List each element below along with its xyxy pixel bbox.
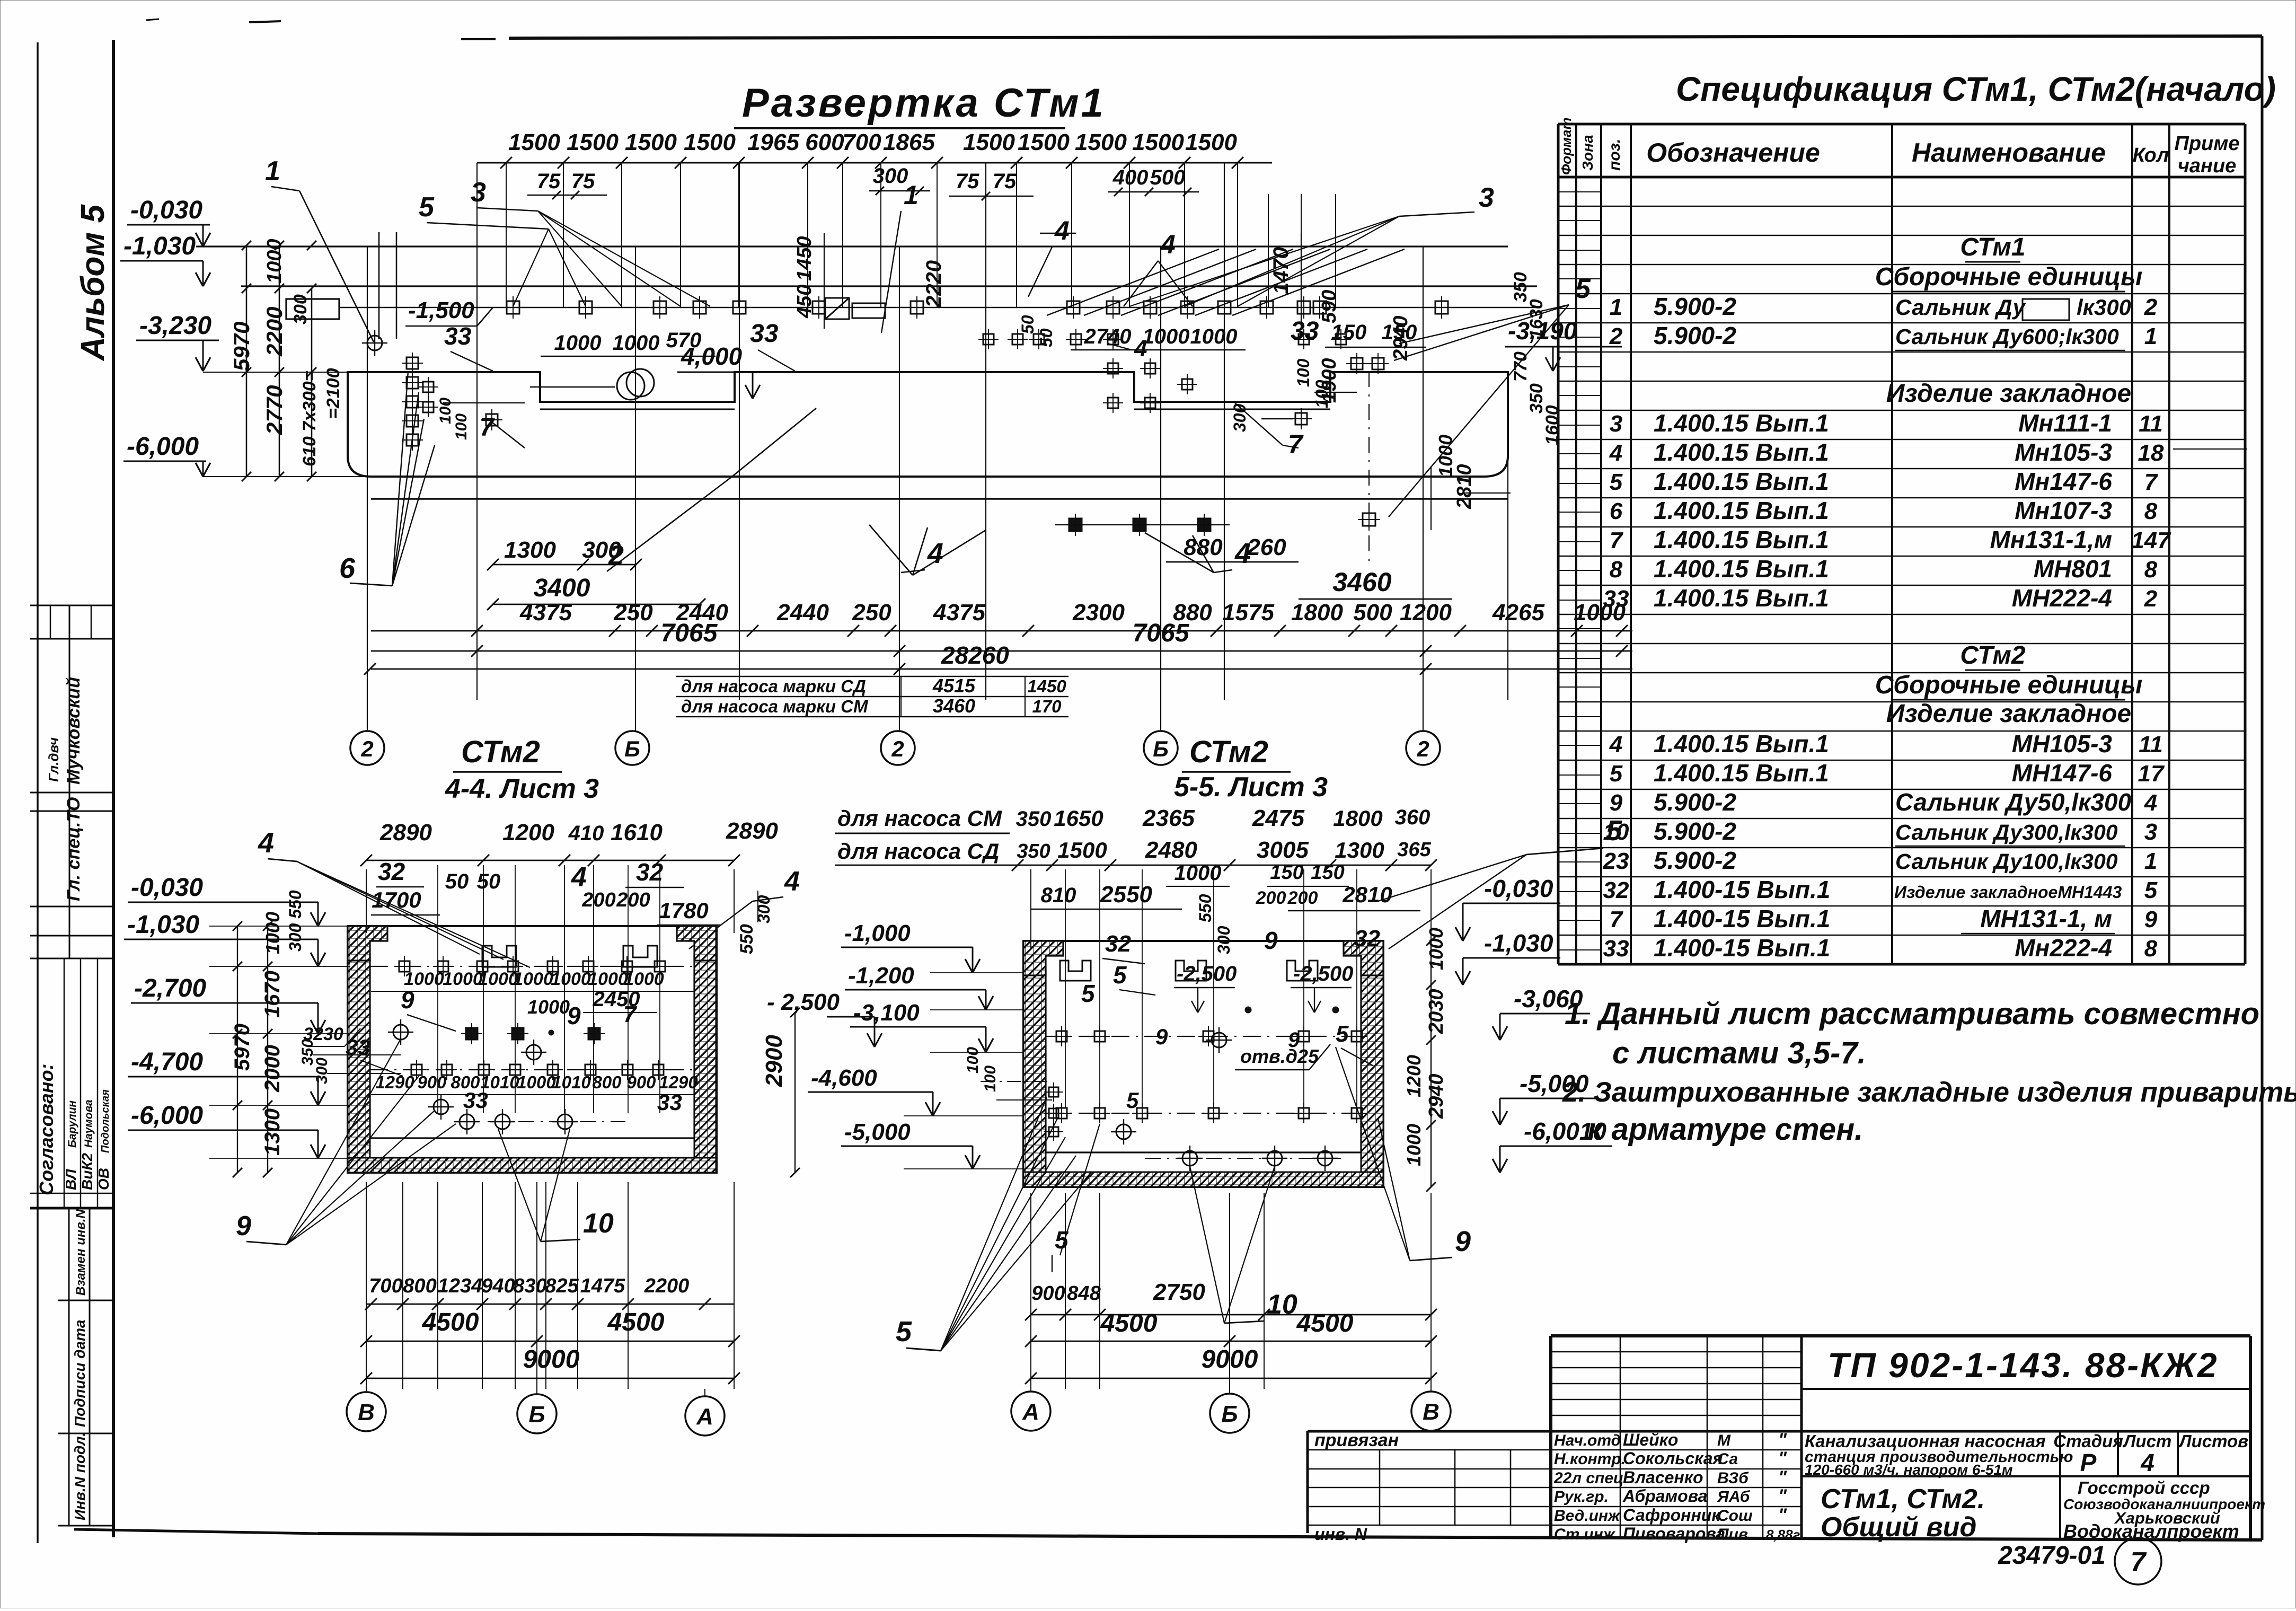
svg-text:5.900-2: 5.900-2 [1654,847,1736,874]
svg-text:Зона: Зона [1579,135,1596,171]
svg-text:400: 400 [1112,166,1149,189]
svg-text:-4,600: -4,600 [811,1065,877,1091]
svg-text:8: 8 [2144,498,2158,524]
svg-text:4: 4 [571,862,587,893]
svg-text:А: А [696,1404,713,1430]
svg-text:4: 4 [1160,230,1176,259]
svg-text:32: 32 [1354,926,1380,952]
svg-text:2750: 2750 [1153,1279,1205,1305]
svg-text:для насоса марки СД: для насоса марки СД [681,676,866,696]
svg-text:1000: 1000 [478,969,518,989]
svg-text:1650: 1650 [1054,806,1103,831]
svg-text:7: 7 [2144,469,2159,495]
svg-text:Согласовано:: Согласовано: [36,1063,57,1195]
svg-text:Б: Б [528,1402,545,1428]
svg-text:поз.: поз. [1606,139,1623,171]
svg-text:150: 150 [1270,861,1303,884]
svg-text:-5,000: -5,000 [1520,1070,1589,1097]
svg-text:9: 9 [1155,1024,1168,1049]
svg-text:СТм2: СТм2 [461,735,540,769]
svg-text:1.400.15 Вып.1: 1.400.15 Вып.1 [1654,730,1829,758]
svg-text:32: 32 [378,858,405,885]
svg-text:1.400.15 Вып.1: 1.400.15 Вып.1 [1654,759,1829,787]
svg-text:": " [1778,1505,1787,1525]
svg-text:550: 550 [737,924,757,954]
svg-text:50: 50 [1018,315,1037,334]
svg-text:1300: 1300 [504,537,556,563]
svg-text:lк300: lк300 [2077,295,2131,320]
svg-text:Обозначение: Обозначение [1646,138,1820,168]
svg-text:5.900-2: 5.900-2 [1654,293,1736,320]
svg-text:10: 10 [583,1208,614,1239]
svg-text:-1,030: -1,030 [123,232,196,260]
svg-text:1.400-15 Вып.1: 1.400-15 Вып.1 [1654,876,1830,903]
svg-text:4,000: 4,000 [681,342,743,370]
svg-text:2480: 2480 [1145,837,1197,863]
svg-text:1450: 1450 [1027,676,1066,696]
svg-text:инв. N: инв. N [1314,1525,1367,1544]
svg-text:4500: 4500 [1100,1309,1158,1337]
svg-text:1.400.15 Вып.1: 1.400.15 Вып.1 [1654,468,1829,495]
svg-text:4: 4 [1609,440,1622,466]
svg-text:350: 350 [1511,272,1531,302]
svg-text:2200: 2200 [644,1275,690,1297]
svg-text:1475: 1475 [580,1275,625,1297]
svg-text:1450: 1450 [793,236,816,281]
svg-text:для насоса СД: для насоса СД [837,839,999,864]
svg-text:4: 4 [784,866,800,897]
svg-text:825: 825 [545,1275,579,1297]
svg-text:Власенко: Власенко [1623,1468,1703,1487]
svg-text:ВЛ: ВЛ [63,1169,79,1190]
svg-text:100: 100 [964,1047,982,1073]
svg-text:-0,030: -0,030 [131,874,203,902]
svg-text:1610: 1610 [611,820,663,846]
svg-text:Подписи дата: Подписи дата [72,1319,88,1427]
svg-text:2475: 2475 [1252,805,1304,831]
svg-text:150: 150 [1331,321,1367,344]
svg-text:700: 700 [369,1275,402,1297]
svg-text:1. Данный лист рассматривать с: 1. Данный лист рассматривать совместно [1565,997,2259,1031]
svg-text:830: 830 [513,1275,546,1297]
svg-text:Инв.N подл.: Инв.N подл. [72,1432,88,1520]
svg-text:1000: 1000 [443,969,483,989]
svg-text:2200: 2200 [262,307,287,357]
svg-text:2890: 2890 [379,820,432,846]
svg-text:1000: 1000 [551,969,591,989]
svg-text:4: 4 [1054,216,1070,245]
svg-text:4375: 4375 [519,600,572,626]
svg-text:3: 3 [471,177,486,208]
svg-text:-2,700: -2,700 [134,974,206,1002]
svg-text:1.400.15 Вып.1: 1.400.15 Вып.1 [1654,555,1829,583]
svg-text:800: 800 [592,1072,622,1092]
svg-text:МН222-4: МН222-4 [2012,584,2112,612]
svg-text:33: 33 [463,1088,488,1113]
svg-text:Сокольская: Сокольская [1623,1449,1723,1468]
svg-text:4375: 4375 [933,600,985,626]
svg-text:33: 33 [1291,317,1319,345]
svg-text:1.400.15 Вып.1: 1.400.15 Вып.1 [1654,409,1829,437]
svg-text:4515: 4515 [932,675,976,697]
svg-text:-1,200: -1,200 [848,963,914,989]
svg-text:1: 1 [1610,294,1622,320]
svg-text:8: 8 [2144,557,2158,583]
svg-text:900: 900 [626,1072,656,1092]
svg-text:Мн105-3: Мн105-3 [2015,438,2112,466]
svg-text:2: 2 [2144,294,2158,320]
svg-text:32: 32 [1603,877,1629,903]
svg-text:1: 1 [265,156,280,187]
svg-text:-0,030: -0,030 [130,196,202,224]
svg-text:365: 365 [1397,839,1431,861]
svg-text:7: 7 [2131,1547,2147,1578]
svg-text:Наименование: Наименование [1912,138,2106,168]
svg-text:300: 300 [313,1058,331,1084]
svg-text:4500: 4500 [1296,1309,1354,1337]
svg-text:17: 17 [2138,761,2165,787]
svg-text:1.400-15 Вып.1: 1.400-15 Вып.1 [1654,934,1830,962]
svg-text:7: 7 [623,1001,638,1027]
svg-text:770: 770 [1511,351,1531,382]
svg-text:22л спец: 22л спец [1553,1469,1623,1487]
svg-text:": " [1778,1467,1787,1487]
svg-text:7: 7 [1610,906,1624,932]
svg-text:-5,000: -5,000 [844,1119,911,1145]
svg-text:1200: 1200 [1400,600,1452,626]
svg-text:800: 800 [403,1275,436,1297]
svg-text:Сафронник: Сафронник [1623,1506,1721,1525]
svg-text:Общий вид: Общий вид [1821,1512,1977,1543]
svg-text:5.900-2: 5.900-2 [1654,817,1736,845]
svg-text:5.900-2: 5.900-2 [1654,788,1736,816]
svg-text:1234: 1234 [438,1275,483,1297]
svg-text:1: 1 [904,180,919,210]
svg-text:-2,500: -2,500 [1177,962,1237,985]
svg-text:1000: 1000 [527,996,570,1018]
svg-text:5: 5 [1113,961,1127,989]
svg-text:Приме: Приме [2175,133,2240,155]
svg-text:2810: 2810 [1453,464,1476,509]
svg-text:450: 450 [793,285,816,319]
svg-text:Изделие закладноеМН1443: Изделие закладноеМН1443 [1894,883,2122,902]
svg-text:Барулин: Барулин [66,1101,78,1148]
svg-text:5: 5 [1081,980,1096,1007]
svg-text:Мн111-1: Мн111-1 [2018,409,2112,437]
svg-text:170: 170 [1032,697,1062,716]
svg-text:МН801: МН801 [2034,555,2112,583]
svg-text:5970: 5970 [231,1024,254,1071]
svg-text:940: 940 [481,1275,515,1297]
svg-text:ЯАб: ЯАб [1717,1488,1751,1506]
svg-text:1500: 1500 [1018,129,1070,155]
svg-text:1800: 1800 [1291,600,1343,626]
svg-text:500: 500 [1150,166,1186,189]
svg-text:9: 9 [1455,1226,1471,1257]
svg-text:880: 880 [1184,534,1223,560]
svg-text:МН105-3: МН105-3 [2012,730,2113,758]
svg-text:2: 2 [891,736,904,761]
svg-text:2: 2 [1609,323,1623,349]
svg-text:33: 33 [444,322,472,350]
svg-text:привязан: привязан [1314,1430,1399,1450]
svg-text:1500: 1500 [1132,129,1184,155]
svg-text:ТП 902-1-143. 88-КЖ2: ТП 902-1-143. 88-КЖ2 [1827,1345,2219,1385]
svg-text:4: 4 [1609,732,1622,758]
svg-text:Госстрой ссср: Госстрой ссср [2078,1478,2210,1498]
svg-text:Подольская: Подольская [100,1089,111,1153]
svg-text:9: 9 [2144,906,2158,932]
svg-text:32: 32 [1105,931,1131,957]
svg-text:Рук.гр.: Рук.гр. [1554,1488,1609,1506]
svg-text:1965: 1965 [747,129,799,155]
svg-text:-1,030: -1,030 [1484,929,1553,957]
svg-text:2940: 2940 [1425,1073,1447,1119]
svg-text:СТм2: СТм2 [1960,641,2025,670]
svg-text:СТм1, СТм2.: СТм1, СТм2. [1821,1484,1985,1515]
svg-text:1.400.15 Вып.1: 1.400.15 Вып.1 [1654,584,1829,612]
svg-text:75: 75 [956,170,979,193]
svg-text:1200: 1200 [502,820,554,846]
svg-text:МН131-1, м: МН131-1, м [1980,905,2112,932]
svg-text:1600: 1600 [1542,405,1562,445]
svg-text:3400: 3400 [534,574,590,602]
svg-text:75: 75 [537,170,561,193]
svg-text:5-5. Лист 3: 5-5. Лист 3 [1174,772,1328,803]
svg-text:2365: 2365 [1142,805,1195,831]
svg-text:4500: 4500 [607,1308,665,1336]
svg-text:200: 200 [581,889,615,911]
svg-text:А: А [1022,1399,1039,1425]
svg-text:2770: 2770 [262,385,287,435]
svg-text:Шейко: Шейко [1623,1430,1678,1449]
svg-text:500: 500 [1353,600,1392,626]
svg-text:-3,100: -3,100 [853,1000,920,1026]
svg-text:Б: Б [1153,736,1169,761]
svg-text:590: 590 [1318,290,1340,323]
svg-text:610 7х300=: 610 7х300= [299,371,320,466]
svg-text:100: 100 [1294,358,1313,387]
svg-text:-3,060: -3,060 [1514,985,1583,1013]
svg-text:1500: 1500 [963,129,1015,155]
svg-text:50: 50 [477,870,501,893]
svg-text:5: 5 [1575,274,1591,304]
svg-text:Изделие закладное: Изделие закладное [1886,380,2132,408]
svg-text:1865: 1865 [883,129,935,155]
svg-text:5: 5 [419,192,435,223]
svg-text:50: 50 [445,870,469,893]
svg-text:5: 5 [1610,761,1623,787]
svg-text:1500: 1500 [1075,129,1127,155]
svg-text:9: 9 [1288,1028,1300,1052]
svg-text:3460: 3460 [933,695,975,717]
svg-text:Н.контр.: Н.контр. [1554,1450,1626,1468]
svg-text:4: 4 [1134,336,1147,362]
svg-text:2440: 2440 [776,600,829,626]
svg-text:9: 9 [236,1211,251,1242]
svg-text:": " [1778,1486,1787,1506]
svg-text:": " [1778,1448,1787,1468]
svg-text:1575: 1575 [1222,600,1274,626]
svg-text:6: 6 [1610,498,1623,524]
svg-text:Формат: Формат [1558,117,1574,175]
svg-text:Мн147-6: Мн147-6 [2015,468,2112,495]
svg-text:-6,000: -6,000 [127,433,199,461]
svg-text:3: 3 [1610,411,1622,437]
svg-text:1300: 1300 [1335,838,1384,862]
svg-text:700: 700 [842,129,881,155]
svg-text:1500: 1500 [625,129,677,155]
svg-text:2890: 2890 [726,818,778,844]
svg-text:7: 7 [1610,527,1624,553]
svg-text:1000: 1000 [1143,325,1190,348]
svg-text:Б: Б [1221,1401,1238,1427]
svg-text:1.400-15 Вып.1: 1.400-15 Вып.1 [1654,905,1830,932]
svg-text:300: 300 [754,895,773,923]
svg-text:1800: 1800 [1333,806,1382,831]
svg-text:Водоканалпроект: Водоканалпроект [2063,1520,2239,1542]
svg-text:-1,030: -1,030 [127,911,199,939]
svg-text:Вед.инж: Вед.инж [1554,1507,1621,1525]
svg-text:600: 600 [805,129,844,155]
svg-text:33: 33 [750,320,779,348]
svg-text:1000: 1000 [624,969,664,989]
svg-text:с листами 3,5-7.: с листами 3,5-7. [1612,1036,1866,1070]
svg-text:1000: 1000 [263,239,286,284]
svg-text:-4,700: -4,700 [131,1048,203,1076]
svg-text:350: 350 [1016,807,1052,831]
svg-text:1.400.15 Вып.1: 1.400.15 Вып.1 [1654,526,1829,553]
svg-text:5: 5 [1336,1021,1349,1047]
svg-text:1500: 1500 [684,129,736,155]
svg-text:300 550: 300 550 [286,890,305,952]
svg-text:100: 100 [437,398,454,424]
svg-text:100: 100 [1312,380,1331,408]
svg-text:Сборочные единицы: Сборочные единицы [1875,671,2143,699]
svg-text:Пив: Пив [1717,1526,1748,1543]
svg-text:Гл. спец.ТО: Гл. спец.ТО [64,797,84,901]
svg-text:Абрамова: Абрамова [1622,1486,1707,1506]
svg-text:Б: Б [624,736,640,761]
svg-text:1.400.15 Вып.1: 1.400.15 Вып.1 [1654,497,1829,524]
svg-text:1.400.15 Вып.1: 1.400.15 Вып.1 [1654,438,1829,466]
svg-text:1000: 1000 [513,969,553,989]
svg-text:200: 200 [1256,888,1286,908]
svg-text:2900: 2900 [761,1035,787,1087]
svg-text:28260: 28260 [941,641,1009,669]
svg-text:2030: 2030 [1425,989,1447,1034]
svg-text:Пивоварова: Пивоварова [1623,1524,1725,1543]
svg-text:Взамен инв.N: Взамен инв.N [74,1209,88,1296]
svg-text:-0,030: -0,030 [1484,875,1553,902]
svg-text:1000: 1000 [262,912,284,954]
svg-text:ОВ: ОВ [95,1168,112,1190]
svg-text:1010: 1010 [552,1072,591,1092]
svg-text:=2100: =2100 [323,368,343,419]
svg-text:1000: 1000 [517,1072,556,1092]
svg-text:9: 9 [1610,790,1623,816]
svg-text:-6,0010: -6,0010 [1524,1117,1606,1145]
svg-text:ВЗб: ВЗб [1717,1469,1749,1487]
svg-text:2220: 2220 [922,260,946,308]
svg-text:1000: 1000 [554,331,602,355]
svg-text:100: 100 [982,1066,999,1092]
svg-text:9: 9 [401,986,414,1014]
svg-text:Кол: Кол [2133,144,2169,166]
svg-text:7065: 7065 [1133,619,1190,647]
svg-text:550: 550 [1196,894,1215,922]
svg-text:Мучковский: Мучковский [64,677,84,785]
svg-text:5: 5 [2144,877,2158,903]
svg-text:2550: 2550 [1100,882,1152,908]
svg-text:23479-01: 23479-01 [1998,1542,2106,1570]
svg-text:Сальник Ду600;lк300: Сальник Ду600;lк300 [1895,324,2119,349]
svg-text:для насоса марки СМ: для насоса марки СМ [681,697,869,716]
svg-text:848: 848 [1067,1282,1101,1305]
svg-text:4: 4 [2144,790,2157,816]
svg-text:1500: 1500 [1185,129,1237,155]
svg-text:4265: 4265 [1492,600,1544,626]
svg-text:Мн107-3: Мн107-3 [2015,497,2112,524]
svg-text:260: 260 [1247,534,1286,560]
svg-text:147: 147 [2131,527,2171,553]
svg-text:для насоса СМ: для насоса СМ [837,806,1002,831]
svg-text:СТм1: СТм1 [1960,233,2025,261]
svg-text:1000: 1000 [1403,1124,1425,1166]
svg-text:7: 7 [1288,429,1304,459]
svg-text:11: 11 [2139,411,2163,437]
svg-text:к арматуре стен.: к арматуре стен. [1587,1112,1863,1147]
svg-text:отв.д25: отв.д25 [1240,1045,1319,1067]
svg-text:200: 200 [616,889,650,911]
svg-text:2: 2 [360,736,373,761]
svg-text:23: 23 [1603,848,1629,874]
svg-text:350: 350 [1017,840,1050,862]
svg-text:4: 4 [258,827,274,859]
svg-text:3: 3 [1479,182,1494,213]
svg-text:Листов: Листов [2178,1431,2248,1451]
svg-text:1000: 1000 [1425,928,1447,970]
svg-text:410: 410 [568,822,604,845]
svg-text:100: 100 [453,413,470,440]
svg-text:900: 900 [1031,1282,1065,1305]
svg-text:32: 32 [636,858,664,886]
svg-text:Сальник Ду100,lк300: Сальник Ду100,lк300 [1895,849,2118,874]
svg-text:5970: 5970 [229,322,254,371]
svg-text:8: 8 [1610,557,1623,583]
svg-text:Наумова: Наумова [83,1099,95,1148]
svg-text:Сош: Сош [1717,1507,1753,1525]
svg-text:5: 5 [1610,469,1623,495]
svg-text:Сальник Ду: Сальник Ду [1895,295,2027,320]
svg-text:-1,500: -1,500 [408,297,474,323]
svg-text:Гл.двч: Гл.двч [46,737,61,782]
svg-text:6: 6 [339,552,356,584]
svg-text:-6,000: -6,000 [131,1102,203,1130]
svg-text:1500: 1500 [567,129,619,155]
svg-text:11: 11 [2139,732,2163,758]
svg-text:Мн222-4: Мн222-4 [2015,934,2112,962]
svg-text:1300: 1300 [261,1108,284,1156]
svg-text:СТм2: СТм2 [1189,735,1268,769]
svg-text:33: 33 [1603,936,1629,962]
svg-text:-1,000: -1,000 [844,920,911,946]
svg-text:Р: Р [2080,1449,2097,1476]
svg-text:2810: 2810 [1342,882,1392,907]
svg-text:9: 9 [1264,927,1278,954]
svg-text:1000: 1000 [1190,325,1238,348]
svg-text:33: 33 [657,1090,682,1115]
